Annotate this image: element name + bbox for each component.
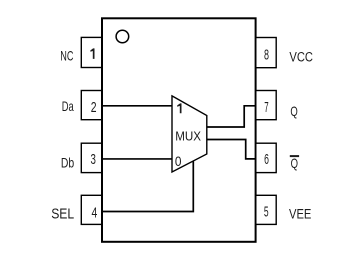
svg-text:VEE: VEE <box>289 206 311 222</box>
svg-text:3: 3 <box>91 151 96 168</box>
svg-text:Q: Q <box>291 156 299 171</box>
svg-text:8: 8 <box>264 47 269 64</box>
svg-text:7: 7 <box>264 99 268 116</box>
pin 4 box <box>81 195 101 224</box>
svg-text:NC: NC <box>60 49 73 64</box>
pin 6 label Q overbar <box>290 155 299 157</box>
wire SEL pin4 to MUX select input <box>101 162 193 212</box>
svg-text:5: 5 <box>264 204 269 221</box>
pin 2 box <box>81 91 101 120</box>
pin 8 box <box>256 38 276 68</box>
pin 7 box <box>256 91 276 120</box>
pin 5 box <box>256 195 276 224</box>
pin 1 box <box>81 37 101 67</box>
svg-text:MUX: MUX <box>175 129 201 143</box>
svg-text:Q: Q <box>290 104 298 119</box>
multiplexer U1 MUX body <box>172 96 207 172</box>
MUX input 1 label <box>177 103 181 113</box>
svg-text:Da: Da <box>62 99 74 114</box>
svg-text:6: 6 <box>264 151 269 168</box>
pin 3 box <box>81 143 101 172</box>
pin 1 orientation dot <box>116 30 129 43</box>
svg-text:VCC: VCC <box>289 48 313 64</box>
wire MUX inverted output to Qbar pin6 <box>207 140 257 159</box>
svg-text:Db: Db <box>61 156 75 171</box>
svg-text:4: 4 <box>92 204 98 221</box>
wire Db pin3 to MUX input 0 <box>101 158 172 160</box>
wire Da pin2 to MUX input 1 <box>101 105 172 107</box>
wire MUX output to Q pin7 <box>207 106 257 127</box>
IC package U1 body <box>102 18 256 242</box>
svg-text:0: 0 <box>175 154 182 169</box>
pin 6 box <box>256 143 276 172</box>
svg-text:SEL: SEL <box>51 205 74 222</box>
svg-text:2: 2 <box>91 99 97 116</box>
